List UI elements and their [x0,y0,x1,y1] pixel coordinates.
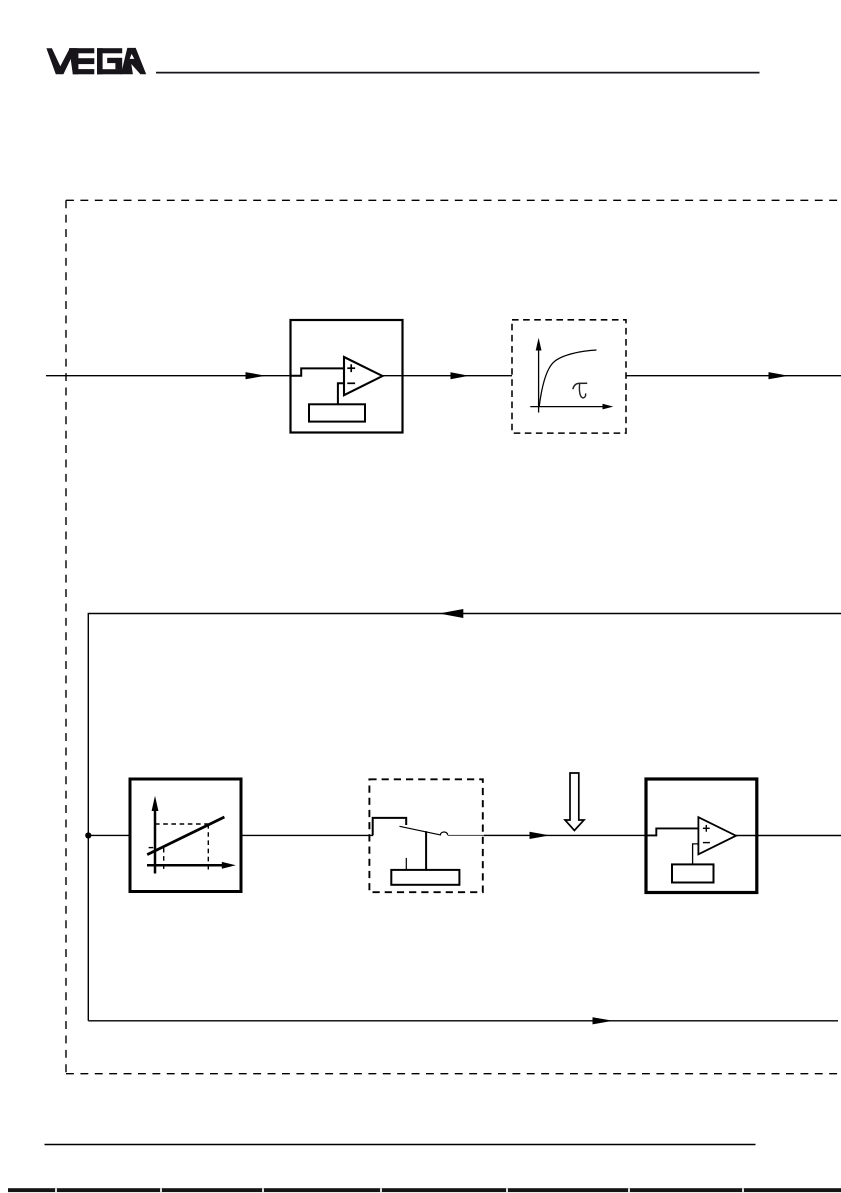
reference block [309,404,365,421]
output amplifier block U3 [646,779,841,893]
arrowhead lower branch [593,1017,614,1024]
arrowhead [530,832,550,839]
tau label [573,383,587,398]
op-amp U1 [344,357,383,395]
dashed system boundary [66,200,841,1073]
exponential response curve [539,350,596,407]
wire inverting input to reference [693,844,699,865]
node junction [85,832,91,838]
blade end hook [440,832,447,835]
scaling / linearization block [130,779,241,892]
wire op-amp output [383,375,404,377]
header rule [156,72,760,74]
x axis [147,864,223,867]
arrowhead [451,372,470,379]
cut-off text band at page bottom [8,1188,841,1192]
wire: scaling block to switch [241,834,373,836]
arrowhead input [246,372,266,379]
projection dashes [149,824,209,870]
op-amp U3 [698,817,736,854]
wire: switch to output amplifier [484,834,646,836]
wire: input signal into amplifier [46,375,291,377]
wire: lower feedback branch [88,1020,838,1022]
actuator link [425,831,427,870]
wire to non-inverting input [291,368,345,375]
wire to fixed contact [373,818,407,836]
reference block [672,864,714,882]
manual adjustment arrow (hollow) [565,773,584,831]
transfer line [147,817,224,855]
switch blade [400,826,442,835]
footer rule [45,1144,756,1146]
integrator time-constant block (tau) [512,320,626,433]
switch block (dashed) [369,779,530,892]
arrowhead feedback left [439,609,463,618]
wire: integrator output to signal output [626,375,841,377]
wire inverting input to reference [338,383,344,404]
amplifier block U1 [291,320,404,433]
wire: node to scaling block [88,834,130,836]
wire output [736,835,841,837]
wire: feedback from output (upper) [88,614,841,1021]
wire to non-inverting input [646,828,698,835]
contact stub [405,858,407,870]
switch control block [391,870,459,885]
wire from moving contact [448,834,530,836]
y axis [154,809,157,874]
arrowhead output [769,372,789,379]
VEGA logo [46,48,146,74]
wire: amplifier to integrator [403,375,513,377]
